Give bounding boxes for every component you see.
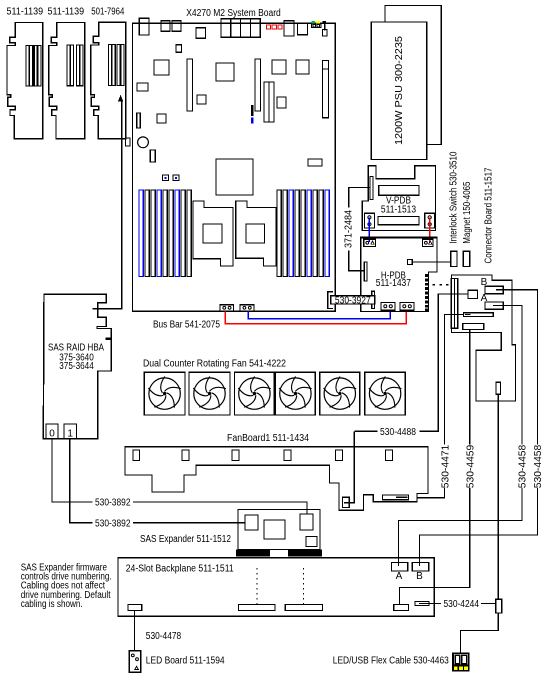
- interlock switch component: [451, 251, 457, 266]
- board top edge 4-connector group: [221, 19, 231, 37]
- HBA port 1 box: [64, 424, 77, 439]
- big chip: [216, 159, 253, 195]
- connector board left slot: [451, 279, 458, 329]
- wire 530-4458 B: connector B to backplane B: [420, 290, 538, 566]
- svg-text:530-4459: 530-4459: [465, 444, 476, 488]
- bus bar connector 1: [220, 305, 234, 311]
- wire 371-2484 cable: [349, 188, 370, 271]
- blue bar component: [251, 118, 254, 124]
- small box under plug: [322, 30, 327, 36]
- H-PDB top thick bar: [360, 236, 438, 238]
- svg-text:511-1139: 511-1139: [48, 6, 85, 17]
- component squares right: [272, 60, 286, 74]
- fan 4: [275, 372, 315, 415]
- connector A: [485, 302, 503, 309]
- fan board outline: [125, 447, 428, 510]
- backplane dotted divider 2: [303, 568, 305, 607]
- blue-dot jumper 1: [163, 175, 169, 181]
- connector rect 4459: [463, 324, 484, 330]
- black plug component: [323, 21, 327, 31]
- riser card 511-1139 #1: [7, 23, 43, 139]
- svg-text:1: 1: [67, 428, 73, 439]
- connector B: [485, 286, 503, 294]
- board top edge component 6: [298, 23, 308, 34]
- right DIMM bank: [277, 190, 329, 277]
- svg-text:X4270 M2 System Board: X4270 M2 System Board: [186, 8, 281, 19]
- svg-text:Bus Bar 541-2075: Bus Bar 541-2075: [153, 319, 220, 330]
- wire red V-PDB to H-PDB: [429, 217, 431, 242]
- SAS expander board: [238, 510, 320, 550]
- svg-text:511-1437: 511-1437: [376, 278, 412, 289]
- board component small square: [196, 28, 206, 38]
- fan board bottom box (530-4488 target): [342, 497, 349, 507]
- black bar component: [251, 105, 254, 116]
- green LED: [311, 21, 315, 24]
- LED/USB flex cable connector: [452, 653, 470, 671]
- bus bar 530-3927 body: [328, 291, 375, 308]
- connector board bracket inner rect: [496, 382, 501, 394]
- backplane jumper 530-4244: [415, 602, 434, 606]
- wire flex connector to LED/USB flex cable: [460, 613, 498, 653]
- riser card 501-7964: [91, 22, 126, 139]
- fan 1: [144, 372, 185, 415]
- arrow into riser3 slot: [118, 95, 123, 102]
- CPU heatsink 2: [236, 201, 276, 266]
- H-PDB input connector left: [364, 239, 376, 246]
- H-PDB input connector right: [423, 239, 433, 246]
- svg-text:375-3644: 375-3644: [59, 361, 94, 372]
- fan 6: [365, 372, 405, 415]
- riser1 slot B: [34, 45, 41, 86]
- fan board connector 5: [336, 450, 343, 461]
- blue-dot jumper 2: [173, 175, 179, 181]
- connector board outline: [451, 275, 515, 401]
- fan 5: [320, 372, 360, 415]
- small square component: [157, 114, 166, 123]
- wire blue V-PDB to H-PDB: [368, 217, 370, 242]
- PSU back box: [385, 6, 441, 145]
- PSU front box: [371, 22, 427, 160]
- expander edge connector bar 1: [236, 550, 270, 557]
- svg-text:530-4244: 530-4244: [444, 599, 480, 610]
- svg-text:501-7964: 501-7964: [91, 6, 124, 17]
- svg-text:511-1513: 511-1513: [381, 204, 417, 215]
- component big square left: [154, 60, 169, 75]
- fan board bottom long connector: [383, 495, 409, 500]
- fan board connector 3: [232, 450, 239, 461]
- svg-text:530-4478: 530-4478: [146, 631, 182, 642]
- dashed pointer H-PDB to connector board: [433, 284, 452, 286]
- H-PDB bottom connector right: [400, 303, 414, 311]
- HBA edge tick: [106, 338, 112, 340]
- LED board: [129, 651, 141, 673]
- svg-text:371-2484: 371-2484: [344, 210, 355, 248]
- board top edge component 5: [284, 21, 294, 36]
- expander chip: [264, 520, 285, 539]
- bus bar connector 2: [240, 305, 254, 311]
- wire 530-3892 port0 to expander: [52, 439, 307, 514]
- wire 530-4478 backplane to LED board: [134, 611, 136, 651]
- riser card 511-1139 #2: [49, 23, 85, 139]
- fan board connector 4: [284, 450, 291, 461]
- wire 530-4244: [429, 603, 441, 605]
- wire 530-4488 label segments: [354, 430, 377, 432]
- component big square mid: [216, 63, 234, 81]
- magnet component: [463, 251, 469, 266]
- svg-text:0: 0: [49, 428, 55, 439]
- three red indicator boxes: [266, 25, 282, 29]
- HBA port 0 box: [46, 424, 58, 439]
- V-PDB board outline: [362, 166, 435, 231]
- tall slot pair: [264, 82, 269, 122]
- svg-text:A: A: [396, 571, 403, 582]
- svg-text:530-4488: 530-4488: [380, 427, 416, 438]
- svg-text:530-4458: 530-4458: [533, 444, 544, 488]
- svg-text:Interlock Switch 530-3510: Interlock Switch 530-3510: [449, 151, 460, 243]
- riser2 slot B: [76, 45, 83, 86]
- fan 3: [235, 372, 275, 415]
- SAS RAID HBA outline: [43, 294, 111, 439]
- wire riser3 to SAS RAID HBA: [92, 102, 121, 309]
- tall slot component 2: [255, 59, 261, 111]
- H-PDB bottom connector left: [381, 303, 395, 311]
- CPU 1 die: [203, 224, 222, 243]
- svg-text:530-3892: 530-3892: [95, 518, 131, 529]
- svg-text:B: B: [416, 571, 423, 582]
- V-PDB left slot: [370, 176, 373, 199]
- fan board connector 6: [386, 450, 393, 461]
- V-PDB connector rect lower: [378, 217, 419, 225]
- backplane bottom connector long 2: [285, 605, 322, 611]
- svg-text:1200W PSU 300-2235: 1200W PSU 300-2235: [394, 36, 405, 145]
- V-PDB output connector left: [365, 213, 375, 228]
- riser1 slot A: [26, 45, 33, 86]
- H-PDB interlock stub connector: [408, 260, 413, 265]
- H-PDB board outline: [361, 239, 437, 312]
- svg-text:530-3927: 530-3927: [335, 295, 371, 306]
- H-PDB left slot: [364, 262, 367, 281]
- svg-text:LED Board 511-1594: LED Board 511-1594: [146, 655, 225, 666]
- board top edge component 1: [139, 18, 149, 35]
- V-PDB connector rect upper: [379, 185, 419, 195]
- svg-text:530-4458: 530-4458: [517, 444, 528, 488]
- round component: [138, 137, 149, 148]
- LED holder box: [311, 24, 321, 28]
- wire 530-3892 port1 to expander: [70, 439, 245, 523]
- wire interlock switch: [412, 261, 451, 263]
- svg-text:511-1139: 511-1139: [7, 6, 44, 17]
- wire 530-4458 A: connector A to backplane A: [399, 305, 522, 566]
- small notch left edge: [126, 138, 131, 146]
- narrow vert component: [137, 113, 140, 128]
- wire 530-4459: connector board to backplane: [400, 329, 470, 604]
- backplane connector B: [412, 563, 429, 572]
- V-PDB output connector right: [425, 213, 435, 228]
- svg-text:LED/USB Flex Cable 530-4463: LED/USB Flex Cable 530-4463: [333, 655, 449, 666]
- riser3 slot B: [117, 44, 124, 85]
- backplane connector A: [392, 563, 408, 572]
- connector board small box to H-PDB: [468, 290, 478, 298]
- wire 530-4488 down into fan board box: [344, 431, 354, 502]
- expander small square: [306, 537, 317, 547]
- yellow LED: [316, 21, 320, 24]
- svg-text:Connector Board 511-1517: Connector Board 511-1517: [484, 167, 495, 263]
- wire red bus bar to H-PDB: [225, 310, 406, 323]
- backplane dotted divider 1: [256, 568, 258, 607]
- expander connector left: [245, 515, 258, 530]
- fan board connector 1: [133, 450, 140, 461]
- wire 530-4471: connector board to fan board: [417, 315, 464, 498]
- flex cable side connector: [496, 599, 502, 613]
- board top edge component 3: [172, 21, 181, 31]
- connector rect 4471: [464, 313, 494, 317]
- expander connector top right: [300, 514, 313, 530]
- H-PDB sawtooth edge: [425, 274, 428, 311]
- small vert rect component: [150, 150, 155, 162]
- board top edge component 2: [161, 21, 170, 31]
- component small square: [277, 97, 286, 108]
- expander edge connector bar 2: [288, 550, 322, 557]
- tall slot component: [187, 59, 193, 111]
- svg-text:Magnet 150-4065: Magnet 150-4065: [462, 181, 473, 243]
- 24-slot backplane outline: [118, 558, 434, 617]
- note text block: [21, 562, 112, 609]
- svg-text:530-3892: 530-3892: [95, 498, 131, 509]
- tall slot right: [323, 60, 329, 117]
- backplane bottom connector 4459: [394, 605, 409, 611]
- component rect left: [137, 83, 148, 91]
- backplane bottom connector long 1: [238, 605, 275, 611]
- svg-text:cabling is shown.: cabling is shown.: [21, 599, 83, 610]
- horiz rect component: [308, 159, 322, 166]
- wire from bracket to flex cable connector: [497, 394, 499, 599]
- fan 2: [189, 372, 230, 415]
- svg-text:24-Slot Backplane 511-1511: 24-Slot Backplane 511-1511: [126, 563, 234, 574]
- component square: [197, 95, 206, 104]
- riser2 slot A: [67, 45, 74, 86]
- svg-text:FanBoard1 511-1434: FanBoard1 511-1434: [227, 433, 309, 444]
- component sq: [176, 45, 182, 52]
- wire connector board to 530-4488 riser: [420, 294, 469, 431]
- svg-text:530-4471: 530-4471: [440, 444, 451, 488]
- system board outline: [133, 23, 336, 311]
- fan board connector 2: [182, 450, 189, 461]
- riser3 slot A: [109, 44, 116, 85]
- CPU heatsink 1: [193, 201, 233, 266]
- left DIMM bank: [139, 190, 191, 277]
- svg-text:SAS Expander 511-1512: SAS Expander 511-1512: [140, 534, 231, 545]
- wire blue bus bar to H-PDB: [248, 310, 390, 318]
- svg-text:Dual Counter Rotating Fan 541-: Dual Counter Rotating Fan 541-4222: [143, 359, 286, 370]
- CPU 2 die: [246, 224, 265, 243]
- backplane bottom connector left (530-4478): [128, 605, 142, 611]
